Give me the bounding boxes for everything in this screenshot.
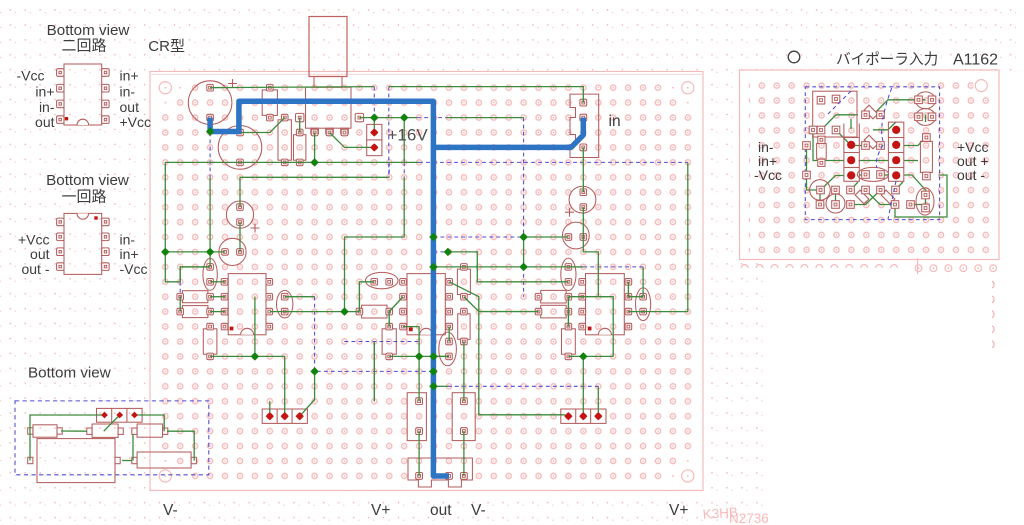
right board red dots [847,126,900,180]
label rb in+ [758,153,777,169]
pin dot J1-1 [267,413,273,419]
right board strip A [844,138,859,182]
mounting hole H2 [682,82,694,94]
label V+ mid [371,502,390,519]
wire cn2-up [418,356,420,401]
wire d14-pad3 [300,371,315,416]
svg-text:CR型: CR型 [148,38,185,55]
thick blue wire (signal trunk) [210,101,449,476]
label legend1 sub [61,38,106,55]
junction JO [429,352,437,360]
jumper wire D8 [523,118,525,237]
resistor R11 [262,84,277,121]
wire pot-2 [330,133,375,148]
right board strip B [888,122,903,181]
label legend2 L4 [21,261,49,277]
wire r2-u1 [210,311,225,313]
wire d16-drop [373,342,375,402]
wire r9-link [568,296,598,298]
label CR type [148,38,185,55]
wire r4-r5 [388,312,390,327]
mounting hole H3 [159,470,171,482]
wire q7-down [583,237,613,356]
junction JM [519,263,527,271]
label V- left [163,502,178,519]
label legend1 R4 [120,114,152,130]
right board ellipse E1 [857,167,888,181]
label legend1 title [47,22,130,39]
right board resistor RV [920,134,932,180]
svg-text:Bottom view: Bottom view [46,172,129,189]
junction JJ [519,233,527,241]
svg-text:out: out [35,114,55,130]
junction JR [579,352,587,360]
svg-text:-Vcc: -Vcc [120,261,148,277]
right board IC block [813,91,857,137]
jumper wire D14 [315,297,434,372]
right board diagonal resistor 4 [881,190,895,204]
jumper wire D13 [179,282,181,297]
transistor Q8 [561,258,576,290]
right board mounting hole [973,78,989,94]
wire left-col [165,162,180,281]
jumper block J1 [262,409,307,423]
wire r4-u2 [389,297,403,312]
wire r5-row18 [389,355,449,357]
resistor R10 [535,305,571,318]
inset wire w2 [104,415,120,431]
svg-text:out: out [430,502,452,519]
wire q4-top [285,296,315,298]
label legend2 R4 [120,261,148,277]
right board strip A upper leads [844,124,859,138]
right board ellipse E4 [916,188,934,215]
label legend2 R2 [120,232,136,248]
right board inner dashes [828,88,896,219]
label legend2 L2 [18,232,50,248]
svg-text:Bottom view: Bottom view [28,365,111,382]
mounting hole H4 [682,470,694,482]
op-amp U2 [400,274,453,335]
right board ellipse E3 [915,109,936,126]
pin dot J1-3 [297,413,303,419]
svg-text:in-: in- [120,232,136,248]
label +16V [388,126,429,145]
wire j5-jumper-stub [240,177,389,207]
wire net-16v-row2 [447,117,524,119]
wire net-16v-row [359,117,417,119]
resistor R9 [535,290,571,303]
wire cn3-up [463,342,465,402]
jumper wire D2 [388,87,390,178]
transistor Q4 [277,290,293,318]
wire cn3-out [463,431,465,476]
header circle mark [788,51,800,63]
right board circle T2 [826,194,845,213]
connector CN3 [452,393,475,441]
inset resistor Rd [132,452,197,468]
right board small pads [803,111,915,208]
svg-text:+16V: +16V [388,126,429,145]
right board dashed outline [805,87,939,220]
label in [609,113,621,130]
inset wire w7 [122,460,132,462]
jumper wire D7 [419,161,688,163]
svg-text:in+: in+ [35,83,54,99]
wire cn2-out [418,431,420,476]
electrolytic capacitor C1 [188,79,237,124]
inset wire w4 [61,430,87,432]
wire +16V feed down [373,118,375,133]
op-amp U3 [579,274,632,335]
junction JD [310,158,318,166]
label legend1 L1 [17,68,45,84]
svg-text:+Vcc: +Vcc [120,114,152,130]
right board diagonal resistor 3 [855,190,869,204]
junction JP [429,367,437,375]
wire Rb-C2 [240,118,285,133]
junction JF [340,307,348,315]
junction JG [251,352,259,360]
svg-text:A1162: A1162 [953,52,998,69]
resistor R3 [203,323,217,359]
wire c3-stub [433,355,449,357]
svg-text:out -: out - [957,167,985,183]
transistor Q1 [226,201,253,228]
label legend1 R1 [120,68,139,84]
polarity mark + [251,224,260,233]
wire q2-q3 [210,177,225,252]
junction JA [206,127,214,135]
wire r1-up [180,267,210,282]
jumper block J2 [561,409,606,423]
inset red dots [101,412,138,419]
pin pad P2 [355,113,363,121]
label header katakana [836,51,938,68]
wire r1-u1 [210,296,225,298]
wire q6-feed [582,147,584,192]
label V- mid [471,502,486,519]
polarity mark + [565,208,574,217]
jumper wire D9 [433,236,523,238]
wire u2r16-c3 [448,327,450,342]
jumper wire D4 [209,133,211,178]
label inset title [28,365,111,382]
input connector CN1 (in) [570,94,599,157]
wire net-j15 [270,311,360,313]
wire q6-q7 [582,207,584,237]
label legend1 R3 [120,99,140,115]
svg-text:V-: V- [163,502,178,519]
wire u2l16-down [403,327,419,357]
right board wires [807,100,948,217]
svg-text:out -: out - [21,261,49,277]
jumper wire D16 [345,341,420,343]
label legend1 L3 [39,99,55,115]
wire junction-up [254,297,256,357]
inset wire w6 [132,434,134,461]
resistor R7 [458,308,470,345]
resistor R4 [356,305,392,318]
wire r6-r10 [464,297,539,312]
thick blue branch to input [433,118,583,148]
wire pot-1 [314,133,316,163]
resistor R1 [177,291,214,303]
junction JL [429,263,437,271]
junction JE [206,248,214,256]
wire u1-j1pad1 [269,401,271,416]
transistor Q6 [569,186,596,213]
partial pad row artifact [741,258,996,348]
right board circle T1 [810,180,831,201]
jumper wire D11 [523,267,525,297]
wire q1-q2 [239,222,241,252]
wire net-top-b [389,87,584,103]
label rb out- [957,167,985,183]
main perfboard [150,72,703,491]
inset jumper block [97,408,143,422]
output connector CN4 (out) [408,458,472,487]
resistor R6 [457,264,470,300]
pin pad P1 [296,113,304,121]
junction JI [429,233,437,241]
wire +16V branch [403,118,405,163]
wire leftcol-q2 [165,251,210,253]
connector CN2 [407,393,426,441]
IC bottom-view (dual) [57,64,110,125]
inset resistor Rb [87,424,123,437]
wire d12-c4 [642,267,644,297]
wire jj-jm [523,237,525,267]
jumper wire D1 [373,87,375,118]
wire u2r13-diag [449,282,568,416]
wire j10-q7 [524,236,569,238]
capacitor C3 [439,332,457,366]
resistor R8 [562,323,576,359]
pin dot J2-2 [580,413,586,419]
right board diagonal resistor 2 [864,135,878,149]
transistor Q2 [219,238,246,265]
label rb -Vcc [754,167,782,183]
jumper wire D5 [388,162,390,177]
label out bottom [430,502,452,519]
jumper wire D15 [448,385,598,387]
jumper wire D6 [403,162,405,177]
svg-text:in: in [609,113,621,130]
jumper wire D10 [433,251,448,253]
label legend2 sub [61,189,106,206]
inset wire w1 [30,415,105,461]
junction JN [415,352,423,360]
wire j2pad2-down [582,356,584,416]
svg-text:-Vcc: -Vcc [17,68,45,84]
resistor R13 [294,129,306,166]
svg-text:一回路: 一回路 [61,189,106,206]
resistor R2 [177,306,214,318]
wire j12-q8 [433,266,568,268]
wire net-j5 [165,161,419,163]
label header A1162 [953,52,998,69]
label legend2 L3 [30,246,50,262]
right board ellipse E2 [915,92,936,109]
pin dot +16V-b [371,144,377,150]
wire j20-stub [433,385,448,387]
svg-text:out: out [30,246,50,262]
label legend2 title [46,172,129,189]
transistor Q3 [203,258,217,290]
pin dot J2-1 [565,413,571,419]
label legend1 R2 [120,83,136,99]
label rb +Vcc [957,139,989,155]
svg-text:-Vcc: -Vcc [754,167,782,183]
svg-text:バイポーラ入力: バイポーラ入力 [836,51,938,68]
label legend1 L4 [35,114,55,130]
pin dot J1-2 [282,413,288,419]
junction JB [370,113,378,121]
wire r10-r8 [567,312,569,327]
right board resistor RW [817,136,827,166]
svg-text:Bottom view: Bottom view [47,22,130,39]
label legend1 L2 [35,83,54,99]
wire u3-r13-c4 [628,282,643,297]
junction JQ [429,382,437,390]
wire q3-u1 [210,281,225,283]
wire q8-stub [568,266,583,268]
right board diagonal resistor 1 [864,105,878,119]
wire r8-j2pad2 [568,355,613,357]
label V+ right [669,502,688,519]
svg-text:二回路: 二回路 [61,38,106,55]
resistor R5 [382,323,396,359]
wire net-top-a [210,87,374,88]
inset dashed outline [15,401,209,475]
svg-text:V+: V+ [669,502,688,519]
jumper wire D12 [583,266,643,268]
inset wire w3 [135,415,165,431]
resistor R12 [278,114,291,165]
svg-text:+Vcc: +Vcc [18,232,50,248]
svg-text:in+: in+ [120,68,139,84]
inset wire w5 [167,431,194,460]
junction JK [444,248,452,256]
svg-text:in-: in- [120,83,136,99]
wire r9-r10 [567,297,569,312]
junction JE2 [161,248,169,256]
transistor Q7 [562,222,589,249]
junction JC [400,113,408,121]
wire Rc lead [299,118,301,133]
inset resistor Ra [28,425,63,437]
watermark [702,505,769,525]
svg-text:N2736: N2736 [729,511,769,525]
inset transformer block [28,439,121,483]
svg-text:V-: V- [471,502,486,519]
electrolytic capacitor C2 [218,126,262,170]
wire j11-right [448,252,569,282]
junction JH [310,367,318,375]
inset resistor Rc [132,424,168,437]
pin dot +16V-a [371,129,377,135]
wire d15-pad3 [597,386,599,416]
svg-text:out: out [120,99,140,115]
IC bottom-view (single) [57,213,110,274]
svg-text:in+: in+ [120,246,139,262]
wire r1r2-col [179,297,181,312]
wire q3-stub [209,252,211,267]
wire +16V down [345,177,405,311]
label rb in- [758,139,774,155]
wire q5-left [359,282,374,312]
jumper wire D3 [417,117,446,119]
wire net-j18 [210,356,285,416]
svg-text:V+: V+ [371,502,390,519]
label legend2 R3 [120,246,139,262]
wire c4-row15 [628,162,688,311]
potentiometer VR1 [306,17,352,136]
svg-text:in-: in- [39,99,55,115]
supply jumper block J3 (+16V) [367,124,382,155]
mounting hole H1 [159,82,171,94]
transistor Q5 [365,272,398,288]
pin dot J2-3 [595,413,601,419]
op-amp U1 [221,274,272,335]
right small board [740,70,1000,260]
capacitor C4 [636,288,651,321]
label rb out+ [957,153,989,169]
